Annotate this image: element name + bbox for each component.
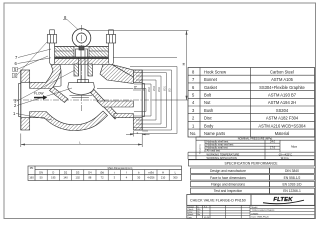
- svg-text:ØD3: ØD3: [153, 85, 156, 91]
- disc (mushroom): [68, 83, 95, 95]
- svg-text:Disc: Disc: [204, 116, 212, 121]
- svg-text:SPECIFICATION PERFORMANCE: SPECIFICATION PERFORMANCE: [224, 161, 278, 165]
- svg-text:Flange and dimensions: Flange and dimensions: [211, 183, 245, 187]
- gasket: [51, 57, 113, 59]
- svg-text:Draw: Draw: [187, 211, 192, 214]
- svg-text:ASTM A105: ASTM A105: [271, 77, 294, 82]
- svg-text:Air seal test: Air seal test: [207, 149, 221, 153]
- svg-text:D3: D3: [76, 171, 80, 175]
- svg-text:ASTM A193 B7: ASTM A193 B7: [268, 93, 297, 98]
- svg-text:Material: Material: [275, 131, 290, 136]
- svg-text:102: 102: [76, 176, 81, 180]
- left bolt: nut: [47, 35, 56, 44]
- svg-text:24.0: 24.0: [270, 140, 276, 144]
- svg-text:Bolt: Bolt: [204, 93, 212, 98]
- svg-text:Name parts: Name parts: [204, 131, 225, 136]
- bonnet (hatched plate): [51, 47, 75, 58]
- left bolt: stud: [50, 31, 55, 64]
- left flange upper (section): [21, 70, 30, 82]
- bush (hatched): [74, 64, 79, 76]
- leader 7: [18, 49, 51, 58]
- right flange lower (section): [133, 118, 142, 130]
- outlet lower shell band (hatched): [114, 114, 133, 118]
- hook screw shank: [79, 46, 84, 50]
- svg-text:4-Ø26: 4-Ø26: [147, 176, 155, 180]
- rotated diameter labels: [143, 85, 172, 92]
- svg-text:Body: Body: [204, 123, 214, 128]
- left raised face: [19, 84, 21, 117]
- svg-text:195: 195: [51, 176, 56, 180]
- svg-text:160: 160: [29, 176, 34, 180]
- svg-text:-29~+425°C: -29~+425°C: [278, 152, 292, 156]
- svg-text:ASTM A194 2H: ASTM A194 2H: [268, 100, 296, 105]
- svg-text:EN 1092-1/D: EN 1092-1/D: [282, 183, 302, 187]
- svg-text:Face to face dimensions: Face to face dimensions: [210, 176, 246, 180]
- FLOW arrow: [34, 92, 47, 100]
- svg-text:Nut: Nut: [204, 100, 211, 105]
- leader labels: [16, 20, 78, 121]
- dimension labels: [79, 62, 186, 144]
- svg-text:Gasket: Gasket: [204, 85, 218, 90]
- svg-text:CHECK VALVE FLANGE-D PN160: CHECK VALVE FLANGE-D PN160: [190, 198, 246, 202]
- b dimension (flange thickness): [132, 131, 134, 137]
- svg-text:D2: D2: [64, 171, 68, 175]
- leader 6: [18, 58, 52, 64]
- svg-text:Main Dimension(mm): Main Dimension(mm): [108, 166, 133, 170]
- disc stem collar: [78, 80, 89, 83]
- svg-text:Carbon Steel: Carbon Steel: [270, 69, 294, 74]
- leader 8: [67, 20, 78, 30]
- svg-text:PN: PN: [30, 166, 34, 170]
- svg-text:ØD: ØD: [169, 88, 172, 92]
- right raised face: [142, 84, 144, 117]
- left flange face line: [20, 70, 22, 130]
- svg-text:EN 558-1/2: EN 558-1/2: [284, 176, 301, 180]
- H dimension line: [86, 30, 189, 32]
- svg-text:NOMINAL PRESSURE (MPa): NOMINAL PRESSURE (MPa): [238, 137, 273, 141]
- svg-text:17.6: 17.6: [270, 146, 276, 150]
- right flange upper (section): [133, 70, 142, 82]
- svg-text:No.: No.: [190, 131, 196, 136]
- horizontal centerline: [13, 99, 152, 101]
- svg-text:ASTM A182 F304: ASTM A182 F304: [266, 116, 299, 121]
- body top-left wall (hatched): [30, 65, 61, 89]
- inlet throat wall (hatched): [50, 87, 69, 103]
- leader 5: [17, 56, 48, 70]
- right diameter brackets: [130, 67, 177, 134]
- stem: [80, 50, 82, 83]
- svg-text:DRWG:: DRWG:: [252, 213, 260, 215]
- svg-text:09.20: 09.20: [204, 217, 210, 219]
- vertical centerline: [81, 25, 83, 112]
- svg-text:D4: D4: [88, 171, 92, 175]
- svg-text:Date: GWN-PN-20: Date: GWN-PN-20: [252, 216, 270, 219]
- outlet bore top line: [97, 88, 133, 90]
- svg-text:140: 140: [63, 176, 68, 180]
- svg-text:EN 12266-1: EN 12266-1: [283, 189, 301, 193]
- svg-text:Bonnet: Bonnet: [204, 77, 218, 82]
- bonnet center boss: [76, 49, 88, 57]
- svg-text:n-Ød: n-Ød: [148, 171, 154, 175]
- svg-text:Mpa: Mpa: [291, 145, 297, 149]
- svg-text:Model:: Model:: [252, 207, 259, 209]
- svg-text:210: 210: [161, 176, 166, 180]
- leader 4: [17, 42, 48, 76]
- seat diagonal passage wall (hatched): [90, 89, 119, 120]
- right flange face line: [141, 70, 143, 130]
- svg-text:ØD1: ØD1: [164, 85, 167, 91]
- svg-text:FLTEK: FLTEK: [273, 197, 293, 203]
- leader 3: [17, 70, 75, 101]
- svg-text:H: H: [162, 171, 164, 175]
- svg-text:DIN 3840: DIN 3840: [285, 169, 299, 173]
- dimension arrowheads: [21, 31, 188, 146]
- svg-text:Bush: Bush: [204, 108, 214, 113]
- svg-text:WORKING APPLICATION: WORKING APPLICATION: [207, 156, 237, 160]
- svg-text:ØD4: ØD4: [148, 86, 151, 92]
- f dimension tick: [133, 89, 141, 91]
- leader 1: [16, 114, 52, 121]
- svg-text:Stand.: Stand.: [187, 213, 193, 216]
- svg-text:ASTM A216 WCB+SS304: ASTM A216 WCB+SS304: [258, 123, 306, 128]
- svg-text:TYPE D EXECUTIVE/13: TYPE D EXECUTIVE/13: [252, 210, 276, 212]
- body top-right wall (hatched): [100, 65, 133, 84]
- svg-text:Test and Inspection: Test and Inspection: [214, 189, 243, 193]
- outlet passage bottom wall (hatched): [97, 101, 133, 107]
- svg-text:SS304+Flexible Graphite: SS304+Flexible Graphite: [259, 85, 305, 90]
- bonnet diameter extension line: [113, 57, 177, 59]
- svg-text:SS304: SS304: [276, 108, 289, 113]
- svg-text:W.O.G.: W.O.G.: [281, 156, 290, 160]
- svg-text:ØD2: ØD2: [158, 86, 161, 92]
- svg-text:D: D: [52, 171, 54, 175]
- svg-text:DN: DN: [39, 171, 43, 175]
- right bolt: stud: [109, 31, 114, 64]
- svg-text:Ød: Ød: [100, 171, 104, 175]
- svg-text:WORKING TEMPERATURE: WORKING TEMPERATURE: [207, 152, 240, 156]
- chamber left wall: [60, 71, 62, 87]
- svg-text:H: H: [181, 62, 186, 65]
- svg-text:300: 300: [173, 176, 178, 180]
- stem housing: [78, 57, 80, 76]
- right bolt: nut: [106, 35, 115, 44]
- svg-text:FLOW: FLOW: [34, 92, 44, 96]
- L dimension line: [20, 134, 22, 148]
- left flange lower (section): [21, 118, 30, 130]
- seat lines: [69, 95, 92, 97]
- svg-text:Design and manufacture: Design and manufacture: [210, 169, 246, 173]
- hook screw eye ring: [72, 29, 91, 48]
- leader 2: [17, 88, 72, 106]
- svg-text:Hook Screw: Hook Screw: [204, 69, 226, 74]
- body bottom band (hatched belly): [30, 111, 108, 131]
- body bonnet flange (hatched, body side): [51, 59, 113, 65]
- svg-text:Test press.: Test press.: [199, 143, 202, 154]
